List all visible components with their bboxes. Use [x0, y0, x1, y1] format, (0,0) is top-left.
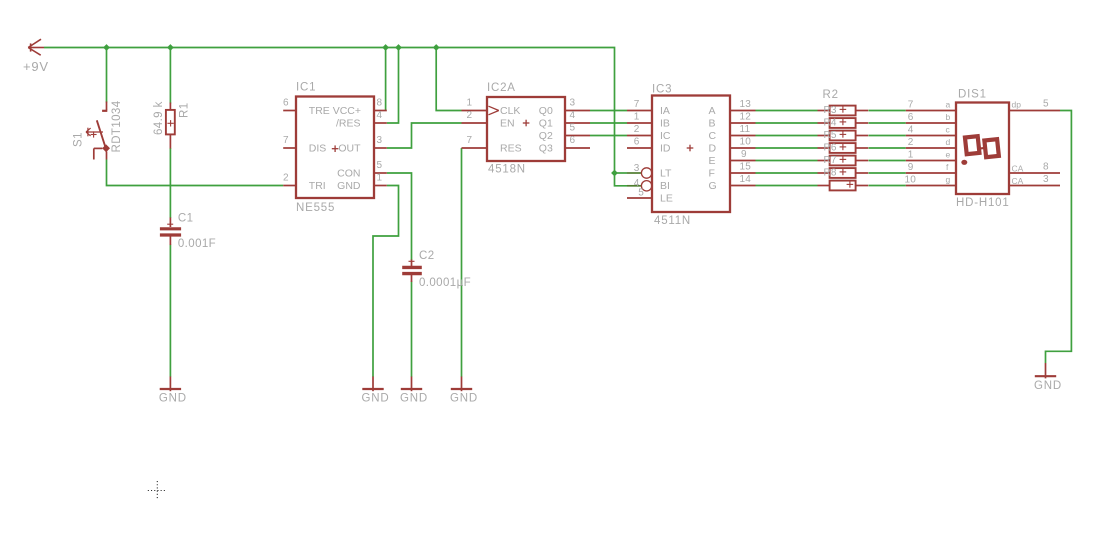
- svg-text:a: a: [946, 100, 951, 110]
- svg-text:E: E: [709, 155, 716, 167]
- wire rail to R1 top: [169, 48, 171, 104]
- svg-text:GND: GND: [337, 180, 361, 192]
- wire IC3 D to R2-d: [756, 147, 818, 149]
- svg-text:0.001F: 0.001F: [178, 238, 216, 250]
- capacitor C1: [160, 218, 181, 246]
- switch S1 RDT1034: [86, 102, 110, 160]
- svg-text:Q1: Q1: [539, 118, 553, 130]
- svg-text:6: 6: [570, 135, 576, 146]
- wire R2-a to DIS1 a: [869, 110, 906, 112]
- wire rail to IC1 pin 4 /RES: [387, 48, 399, 124]
- svg-text:b: b: [946, 112, 951, 122]
- IC2A pin names: [500, 105, 553, 155]
- resistor R3 (segment a): [818, 106, 869, 116]
- svg-text:C: C: [709, 130, 717, 142]
- resistor R9 (segment g): [818, 181, 869, 191]
- IC3 4511N decoder body: [652, 96, 730, 213]
- svg-text:12: 12: [740, 112, 752, 123]
- svg-text:R5: R5: [824, 130, 837, 141]
- wire C1 bottom to GND: [169, 245, 171, 377]
- DIS1 HD-H101 display body: [956, 103, 1009, 195]
- IC3 pin 2 IC stub: [627, 135, 652, 137]
- svg-text:e: e: [946, 150, 951, 160]
- svg-text:S1: S1: [73, 132, 85, 147]
- svg-text:10: 10: [904, 175, 916, 186]
- DIS1 pin numbers: [904, 99, 1049, 186]
- wire rail to S1 top: [106, 48, 108, 103]
- junction at S1 branch: [103, 44, 110, 51]
- ground symbol GND (C1): [160, 377, 181, 392]
- IC3 pin 3 LT bubble: [641, 168, 651, 178]
- svg-text:RES: RES: [500, 143, 522, 155]
- svg-text:Q2: Q2: [539, 130, 553, 142]
- wire R2-c to DIS1 c: [869, 135, 906, 137]
- svg-text:RDT1034: RDT1034: [111, 100, 123, 152]
- wire R1 bottom to C1 top: [169, 148, 171, 218]
- wire IC2A Q1 to IC3 IB: [590, 122, 627, 124]
- svg-text:IC1: IC1: [296, 82, 316, 94]
- wire rail to IC1 pin 8 VCC: [385, 48, 387, 111]
- svg-text:13: 13: [740, 99, 752, 110]
- wire IC1 CON to C2 top: [387, 173, 412, 260]
- svg-text:2: 2: [283, 173, 289, 184]
- svg-text:8: 8: [377, 98, 383, 109]
- wire IC3 G to R2-g: [756, 185, 818, 187]
- DIS1 pin e stub: [906, 160, 956, 162]
- wire to IC3 BI bubble: [615, 173, 628, 186]
- svg-text:F: F: [709, 168, 715, 180]
- svg-text:2: 2: [467, 110, 473, 121]
- IC2A pin 5 Q2 stub: [565, 135, 590, 137]
- svg-text:g: g: [946, 175, 951, 185]
- svg-text:HD-H101: HD-H101: [956, 197, 1010, 209]
- svg-text:GND: GND: [362, 393, 390, 405]
- IC1 pin 2 TRI stub: [283, 185, 296, 187]
- svg-text:14: 14: [740, 174, 752, 185]
- svg-text:1: 1: [467, 98, 473, 109]
- junction at IC3 LT: [611, 170, 618, 177]
- resistor R6 (segment d): [818, 143, 869, 153]
- svg-text:4518N: 4518N: [488, 164, 526, 176]
- wire DIS1 dp to GND: [1046, 111, 1072, 364]
- svg-text:9: 9: [908, 162, 914, 173]
- svg-text:/RES: /RES: [336, 118, 361, 130]
- wire IC2A Q0 to IC3 IA: [590, 110, 627, 112]
- svg-text:BI: BI: [660, 180, 670, 192]
- svg-text:8: 8: [1043, 162, 1049, 173]
- IC3 pin 11 C stub: [730, 135, 756, 137]
- IC3 pin names: [660, 105, 717, 205]
- svg-text:R8: R8: [824, 168, 837, 179]
- svg-text:3: 3: [377, 135, 383, 146]
- svg-text:15: 15: [740, 162, 752, 173]
- svg-text:1: 1: [634, 112, 640, 123]
- svg-text:A: A: [709, 105, 716, 117]
- svg-text:CA: CA: [1012, 164, 1024, 174]
- IC2A pin 6 Q3 stub: [565, 147, 590, 149]
- svg-text:LE: LE: [660, 193, 673, 205]
- capacitor C2: [402, 260, 422, 283]
- svg-text:R3: R3: [824, 105, 837, 116]
- supply symbol +9V arrow: [28, 39, 44, 55]
- svg-text:GND: GND: [400, 393, 428, 405]
- svg-text:CON: CON: [337, 168, 360, 180]
- IC2A pin 4 Q1 stub: [565, 122, 590, 124]
- wire R2-e to DIS1 e: [869, 160, 906, 162]
- svg-text:TRE: TRE: [309, 105, 330, 117]
- DIS1 pin names: [946, 100, 1024, 187]
- DIS1 pin b stub: [906, 122, 956, 124]
- IC2A pin 7 RES stub: [462, 147, 488, 149]
- svg-text:IC2A: IC2A: [487, 82, 516, 94]
- svg-text:OUT: OUT: [338, 143, 361, 155]
- svg-text:C2: C2: [419, 250, 435, 262]
- svg-text:7: 7: [467, 135, 473, 146]
- wire R2-g to DIS1 g: [869, 185, 906, 187]
- svg-text:R1: R1: [178, 102, 190, 118]
- IC3 pin 5 LE stub: [627, 197, 652, 199]
- IC3 pin 12 B stub: [730, 122, 756, 124]
- svg-text:4: 4: [570, 110, 576, 121]
- IC1 pin 6 TRE stub: [283, 110, 296, 112]
- wire IC3 B to R2-b: [756, 122, 818, 124]
- origin cross marker: [148, 481, 167, 500]
- junction at IC1 VCC branch: [382, 44, 389, 51]
- svg-text:7: 7: [908, 100, 914, 111]
- wire IC3 C to R2-c: [756, 135, 818, 137]
- IC2A origin cross: [523, 120, 530, 127]
- wire C2 bottom to GND: [411, 282, 413, 377]
- IC3 pin 9 E stub: [730, 160, 756, 162]
- IC1 pin 5 CON stub: [374, 172, 387, 174]
- svg-text:Q0: Q0: [539, 105, 553, 117]
- svg-text:4: 4: [908, 125, 914, 136]
- svg-text:LT: LT: [660, 168, 672, 180]
- junction at IC1 /RES branch: [395, 44, 402, 51]
- DIS1 pin g stub: [906, 185, 956, 187]
- svg-text:6: 6: [634, 137, 640, 148]
- svg-text:f: f: [946, 162, 949, 172]
- svg-text:10: 10: [740, 137, 752, 148]
- IC2A clock triangle: [489, 106, 499, 115]
- svg-text:R7: R7: [824, 155, 837, 166]
- wire IC3 A to R2-a: [756, 110, 818, 112]
- wire IC2A RES to GND: [461, 148, 463, 377]
- wire IC1 GND pin to GND symbol: [373, 186, 399, 377]
- IC1 pin 4 /RES stub: [374, 122, 387, 124]
- ground symbol GND (IC1): [362, 377, 383, 392]
- svg-text:5: 5: [638, 188, 644, 199]
- svg-text:4: 4: [377, 110, 383, 121]
- wire IC1 OUT to IC2A EN: [387, 123, 462, 148]
- wire R2-f to DIS1 f: [869, 172, 906, 174]
- svg-text:3: 3: [1043, 174, 1049, 185]
- svg-text:3: 3: [634, 163, 640, 174]
- svg-text:11: 11: [740, 124, 751, 135]
- IC1 pin 1 GND stub: [374, 185, 387, 187]
- IC3 pin 6 ID stub: [627, 147, 652, 149]
- ground symbol GND (DIS1): [1035, 363, 1056, 378]
- svg-text:EN: EN: [500, 118, 515, 130]
- svg-text:c: c: [946, 125, 951, 135]
- svg-text:2: 2: [634, 124, 640, 135]
- wire to IC3 LT bubble: [615, 172, 628, 174]
- wire IC3 F to R2-f: [756, 172, 818, 174]
- ground symbol GND (C2): [401, 377, 422, 392]
- svg-text:DIS1: DIS1: [958, 89, 987, 101]
- svg-text:3: 3: [570, 98, 576, 109]
- DIS1 pin CA stub (3): [1009, 185, 1060, 187]
- svg-text:+9V: +9V: [23, 59, 49, 74]
- svg-text:7: 7: [634, 99, 640, 110]
- IC2A pin 3 Q0 stub: [565, 110, 590, 112]
- resistor R4 (segment b): [818, 118, 869, 128]
- svg-text:R6: R6: [824, 143, 837, 154]
- svg-text:CLK: CLK: [500, 105, 520, 117]
- DIS1 decimal point: [961, 160, 967, 165]
- IC3 pin 7 IA stub: [627, 110, 652, 112]
- DIS1 pin d stub: [906, 147, 956, 149]
- DIS1 pin dp stub: [1009, 110, 1060, 112]
- svg-text:1: 1: [377, 173, 383, 184]
- resistor R5 (segment c): [818, 131, 869, 141]
- svg-text:IA: IA: [660, 105, 670, 117]
- svg-text:2: 2: [908, 137, 914, 148]
- resistor R7 (segment e): [818, 156, 869, 166]
- svg-text:R2: R2: [823, 89, 839, 101]
- IC1 pin 8 VCC stub: [374, 110, 387, 112]
- svg-text:D: D: [709, 143, 717, 155]
- wire rail to IC2A pin 1 CLK: [436, 48, 461, 111]
- IC3 origin cross: [687, 145, 694, 152]
- DIS1 pin a stub: [906, 110, 956, 112]
- DIS1 pin f stub: [906, 172, 956, 174]
- svg-text:R4: R4: [824, 118, 837, 129]
- svg-text:IB: IB: [660, 118, 670, 130]
- svg-text:0.0001µF: 0.0001µF: [419, 277, 471, 289]
- svg-text:GND: GND: [159, 393, 187, 405]
- junction at R1 branch: [167, 44, 174, 51]
- junction at IC2A CLK branch: [433, 44, 440, 51]
- IC3 pin 15 F stub: [730, 172, 756, 174]
- svg-text:6: 6: [283, 98, 289, 109]
- svg-text:ID: ID: [660, 143, 671, 155]
- svg-text:CA: CA: [1012, 176, 1024, 186]
- svg-text:1: 1: [908, 150, 914, 161]
- IC1 pin numbers: [283, 98, 383, 184]
- svg-text:VCC+: VCC+: [333, 105, 361, 117]
- svg-text:GND: GND: [1034, 380, 1062, 392]
- wire IC3 E to R2-e: [756, 160, 818, 162]
- svg-text:5: 5: [570, 123, 576, 134]
- IC3 pin 13 A stub: [730, 110, 756, 112]
- IC2A pin 1 CLK stub: [462, 110, 488, 112]
- svg-text:G: G: [709, 180, 717, 192]
- svg-text:7: 7: [283, 135, 289, 146]
- svg-text:GND: GND: [450, 393, 478, 405]
- IC1 pin 7 DIS stub: [283, 147, 296, 149]
- svg-text:IC: IC: [660, 130, 671, 142]
- IC2A 4518N counter body: [487, 97, 565, 161]
- IC1 origin cross: [332, 145, 339, 152]
- svg-text:6: 6: [908, 112, 914, 123]
- svg-text:Q3: Q3: [539, 143, 553, 155]
- svg-text:9: 9: [741, 149, 747, 160]
- svg-text:4511N: 4511N: [654, 215, 691, 227]
- ground symbol GND (IC2A RES): [451, 377, 472, 392]
- svg-text:64.9 k: 64.9 k: [153, 101, 165, 135]
- resistor R8 (segment f): [818, 168, 869, 178]
- IC2A pin 2 EN stub: [462, 122, 488, 124]
- IC1 NE555 timer body: [296, 97, 374, 199]
- IC2A pin numbers: [467, 98, 576, 147]
- svg-text:5: 5: [1043, 99, 1049, 110]
- wire +9V rail from arrow to IC3 blanking pins: [44, 48, 615, 173]
- svg-text:DIS: DIS: [309, 143, 327, 155]
- IC1 pin 3 OUT stub: [374, 147, 387, 149]
- svg-text:5: 5: [377, 160, 383, 171]
- IC3 pin 4 BI bubble: [641, 181, 651, 191]
- wire R2-d to DIS1 d: [869, 147, 906, 149]
- svg-text:IC3: IC3: [652, 84, 672, 96]
- IC3 pin numbers: [634, 99, 752, 199]
- wire IC2A Q2 to IC3 IC: [590, 135, 627, 137]
- svg-text:NE555: NE555: [296, 202, 335, 214]
- svg-text:d: d: [946, 137, 951, 147]
- DIS1 seven segment digit 8: [965, 136, 999, 157]
- wire S1 to IC1 TRI: [107, 160, 284, 186]
- IC3 pin 14 G stub: [730, 185, 756, 187]
- svg-text:dp: dp: [1012, 100, 1022, 110]
- IC3 pin 10 D stub: [730, 147, 756, 149]
- svg-text:TRI: TRI: [309, 180, 326, 192]
- wire R2-b to DIS1 b: [869, 122, 906, 124]
- resistor R1 64.9k: [166, 103, 175, 149]
- DIS1 pin c stub: [906, 135, 956, 137]
- IC1 pin names: [309, 105, 361, 192]
- DIS1 pin CA stub (8): [1009, 172, 1060, 174]
- svg-text:C1: C1: [178, 213, 194, 225]
- svg-text:B: B: [709, 118, 716, 130]
- IC3 pin 1 IB stub: [627, 122, 652, 124]
